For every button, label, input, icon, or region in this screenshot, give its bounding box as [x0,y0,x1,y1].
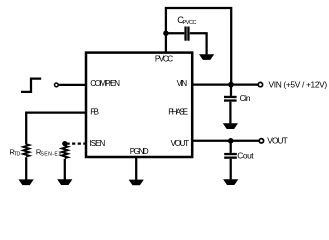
svg-text:PGND: PGND [130,147,149,156]
svg-text:VIN (+5V / +12V): VIN (+5V / +12V) [269,79,328,89]
svg-text:TD: TD [14,152,21,158]
svg-text:VIN: VIN [177,79,188,88]
svg-text:VOUT: VOUT [171,139,190,148]
svg-text:PVCC: PVCC [155,54,173,63]
svg-text:VOUT: VOUT [267,135,288,145]
svg-text:SEN-EX: SEN-EX [40,152,62,158]
svg-text:ISEN: ISEN [90,139,106,148]
svg-text:FB: FB [90,108,99,117]
svg-text:Cout: Cout [237,150,254,160]
svg-text:PHASE: PHASE [168,108,188,117]
svg-text:Cin: Cin [240,93,251,103]
svg-text:COMP/EN: COMP/EN [90,79,120,88]
svg-text:PVCC: PVCC [183,20,197,26]
